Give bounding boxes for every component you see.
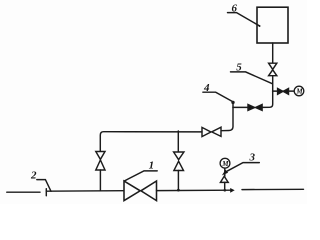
valve (filled) on branch to node A bbox=[248, 105, 255, 111]
wire branch left of valve to node A bbox=[233, 106, 248, 108]
wire main line segment C bbox=[157, 189, 232, 191]
svg-text:М: М bbox=[295, 88, 303, 96]
wire gauge stem upper bbox=[224, 168, 226, 176]
wire jog from node A down + elbow left bbox=[221, 102, 233, 130]
leader arrowhead (3) bbox=[222, 170, 228, 176]
svg-text:1: 1 bbox=[149, 160, 155, 172]
wire upper horizontal line + elbow down to riser 1 bbox=[100, 132, 202, 152]
pipe break tick (inlet) bbox=[45, 189, 47, 196]
leader line to inlet tick (2) bbox=[37, 180, 51, 192]
manometer M2 (bottom) bbox=[220, 158, 230, 168]
valve (open) on upper horizontal line bbox=[202, 127, 211, 136]
svg-text:3: 3 bbox=[249, 151, 256, 163]
wire main line segment D (right stub) bbox=[242, 188, 304, 190]
valve V5 on tank outlet bbox=[269, 63, 277, 69]
valve on riser 1 (open) bbox=[96, 152, 105, 160]
valve V1 main (large, open) bbox=[124, 181, 140, 201]
wire main line segment B bbox=[46, 190, 124, 193]
flow arrow at line end bbox=[230, 188, 235, 193]
leader line to tank 6 bbox=[228, 13, 260, 26]
wire gauge stem lower bbox=[224, 182, 226, 190]
pressure tap triangle bbox=[220, 176, 228, 182]
node A junction dot bbox=[231, 101, 234, 104]
wire riser 2 upper bbox=[177, 131, 179, 152]
wire tank pipe down + elbow left to node A bbox=[262, 76, 273, 108]
wire main line left stub bbox=[7, 191, 40, 193]
wire riser 2 lower bbox=[177, 171, 179, 191]
leader line to node A (4) bbox=[203, 92, 232, 101]
leader dot inside tank bbox=[259, 25, 261, 27]
leader line to pipe (5) bbox=[231, 72, 273, 84]
leader line to gauge stem (3) bbox=[227, 163, 259, 172]
junction dot gauge stem / main line bbox=[224, 189, 227, 192]
svg-text:М: М bbox=[221, 160, 229, 168]
leader line to valve V1 (1) bbox=[125, 171, 158, 181]
wire tank outlet (vertical) bbox=[272, 43, 274, 63]
valve (filled) on gauge branch bbox=[278, 89, 283, 95]
wire gauge branch bbox=[273, 90, 295, 92]
wire riser 1 lower bbox=[99, 170, 101, 191]
junction dot riser 2 / main line bbox=[177, 189, 180, 192]
svg-text:2: 2 bbox=[30, 170, 37, 182]
valve on riser 2 (open) bbox=[174, 152, 184, 160]
tank B6 (vessel) bbox=[257, 7, 288, 43]
manometer M1 (top right) bbox=[294, 86, 304, 96]
